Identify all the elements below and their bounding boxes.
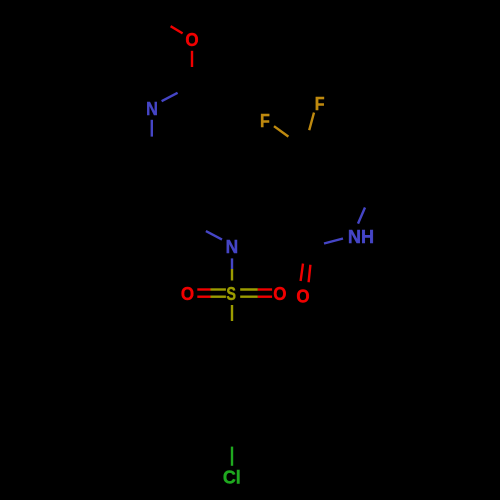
bond S-C aryl (S half) — [231, 305, 233, 321]
svg-text:F: F — [315, 93, 325, 114]
double bond S=O right, lower line — [240, 296, 258, 298]
bond F1-C (F half, left) — [274, 126, 288, 136]
double bond S=O left, lower line — [197, 296, 210, 298]
bond ringC-N2 (N half) — [206, 231, 222, 240]
double bond S=O left, upper line — [197, 288, 210, 290]
svg-text:O: O — [185, 29, 198, 50]
bond NH-C(=O) (N half) — [324, 239, 343, 244]
bond F2-C (F half, right) — [309, 113, 314, 131]
bond C-Cl (Cl half) — [231, 447, 233, 466]
svg-text:NH: NH — [348, 226, 374, 247]
bond O-C ring (O half) — [191, 51, 193, 67]
svg-text:O: O — [273, 283, 286, 304]
svg-text:S: S — [226, 283, 236, 304]
bond N2-S (S half) — [231, 269, 233, 281]
bond N2-S (N half) — [231, 258, 233, 269]
svg-text:O: O — [296, 286, 309, 307]
svg-text:N: N — [146, 98, 158, 119]
svg-text:Cl: Cl — [223, 467, 241, 487]
bond N1-C ring down (N half) — [151, 120, 153, 137]
svg-text:O: O — [181, 283, 194, 304]
bond N1-C(OMe) (N half) — [162, 93, 178, 101]
svg-text:F: F — [260, 110, 270, 131]
bond CH2-NH (N half) — [358, 208, 365, 224]
double bond C=O carbonyl (O halves) — [301, 264, 303, 281]
svg-text:N: N — [226, 237, 239, 258]
double bond S=O right, upper line — [240, 288, 258, 290]
bond CH3-O (methoxy, O half) — [171, 26, 183, 33]
